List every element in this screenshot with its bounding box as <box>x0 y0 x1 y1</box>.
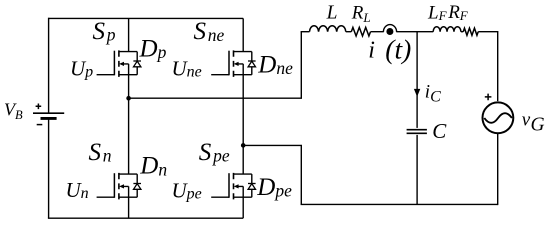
svg-text:Upe: Upe <box>172 178 202 202</box>
capacitor C <box>407 130 427 134</box>
svg-text:Sp: Sp <box>93 18 116 45</box>
wire capacitor branch top <box>416 32 418 128</box>
battery minus sign <box>37 124 43 126</box>
vG plus sign <box>485 94 492 101</box>
svg-text:vG: vG <box>522 110 545 136</box>
current arrow iC <box>414 89 420 97</box>
source vG circle <box>483 102 514 133</box>
svg-text:VB: VB <box>4 100 23 122</box>
svg-text:iC: iC <box>425 81 441 105</box>
wire leg2 drain Sne <box>242 18 244 51</box>
svg-text:Dn: Dn <box>139 153 167 180</box>
svg-text:Sn: Sn <box>89 139 112 166</box>
svg-text:Dpe: Dpe <box>256 174 292 201</box>
svg-text:Dp: Dp <box>139 35 167 62</box>
svg-text:Dne: Dne <box>257 52 293 79</box>
svg-text:RL: RL <box>351 2 371 24</box>
wire RL to probe <box>371 31 434 33</box>
svg-text:Up: Up <box>70 56 93 80</box>
svg-text:Un: Un <box>66 178 89 202</box>
transistor Sne <box>211 50 252 76</box>
wire RF to right corner down to source vG <box>478 31 498 101</box>
battery VB <box>33 113 64 118</box>
wire node A to filter <box>129 32 302 99</box>
svg-text:Spe: Spe <box>199 139 230 166</box>
resistor RF <box>463 28 478 35</box>
svg-text:Sne: Sne <box>194 18 225 45</box>
wire leg2 Spe source to bottom rail <box>242 197 244 218</box>
wire battery to bottom rail <box>48 118 50 218</box>
current probe dot i(t) <box>386 28 393 35</box>
svg-text:(t): (t) <box>385 33 411 64</box>
diode Dn <box>133 174 141 197</box>
wire bottom rail <box>48 217 243 219</box>
resistor RL <box>351 27 370 36</box>
wire leg2 mid Sne source to Spe drain <box>242 75 244 174</box>
svg-text:i: i <box>368 37 375 63</box>
wire leg1 Sn source to bottom rail <box>128 197 130 218</box>
diode Dp <box>133 52 141 75</box>
wire vG bottom <box>497 133 499 205</box>
svg-text:LF: LF <box>427 2 448 23</box>
wire leg1 mid Sp source to Sn drain <box>128 75 130 174</box>
diode Dne <box>248 52 256 75</box>
current probe arc <box>383 25 396 32</box>
wire top rail <box>49 17 244 19</box>
node B junction dot <box>241 143 246 148</box>
wire capacitor bottom <box>416 135 418 205</box>
transistor Sn <box>97 173 138 200</box>
svg-text:C: C <box>432 119 447 143</box>
transistor Spe <box>211 173 252 200</box>
wire LF to RF <box>461 31 463 33</box>
wire leg1 drain Sp <box>128 18 130 51</box>
svg-text:L: L <box>326 2 338 23</box>
battery plus sign <box>36 104 42 110</box>
wire bottom output line <box>301 203 498 205</box>
svg-text:Une: Une <box>172 56 202 80</box>
wire L to RL <box>346 31 352 33</box>
wire filter row left <box>301 31 310 33</box>
diode Dpe <box>248 174 256 197</box>
wire node B to bottom line <box>243 145 301 205</box>
node A junction dot <box>126 96 131 101</box>
svg-text:RF: RF <box>447 2 469 23</box>
source vG sine <box>484 113 512 123</box>
inductor LF <box>433 27 461 32</box>
transistor Sp <box>97 50 138 76</box>
inductor L <box>310 26 346 32</box>
wire left rail to battery <box>48 18 50 113</box>
